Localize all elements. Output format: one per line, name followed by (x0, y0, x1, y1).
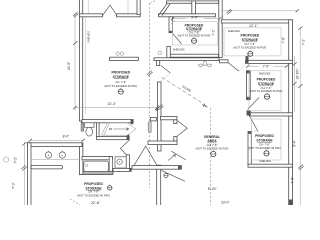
stairs inner slant (104, 123, 110, 135)
svg-text:SHELVES: SHELVES (87, 31, 91, 43)
dim line 7-0 room4 (248, 65, 260, 67)
svg-text:(NOT TO EXCEED 40 PSF): (NOT TO EXCEED 40 PSF) (234, 46, 267, 50)
kitchen counter edge (31, 159, 80, 161)
wall M2 top horizontal (117, 14, 141, 17)
room2 door leaf (173, 34, 182, 45)
dim line far-left vertical (23, 142, 25, 205)
svg-text:7'-9": 7'-9" (291, 176, 295, 183)
svg-text:CH: 7'-8": CH: 7'-8" (259, 142, 270, 146)
room3 door arc (239, 64, 246, 71)
divider left cap (247, 111, 251, 116)
chimney door leaf (171, 151, 186, 160)
svg-text:8'-1½": 8'-1½" (208, 187, 217, 191)
vanity sink (117, 159, 122, 164)
room2 interior thin rect (172, 22, 217, 45)
diagonal wall D1 (159, 3, 170, 15)
door wedge V2 (177, 121, 187, 137)
svg-text:STORAGE: STORAGE (256, 138, 273, 142)
lower wall below room2 (154, 58, 219, 61)
door V1 opening leaves (103, 5, 117, 15)
toilet bowl (86, 127, 93, 136)
svg-text:CH: 7'-8": CH: 7'-8" (88, 189, 99, 193)
chimney left stub (150, 118, 156, 121)
kitchen sink circle 1 (45, 152, 51, 158)
svg-text:13'-4": 13'-4" (107, 102, 116, 106)
wall corner stub W2 (137, 0, 140, 15)
room3 top wall (221, 20, 292, 23)
svg-text:(NOT TO EXCEED 40 PSF): (NOT TO EXCEED 40 PSF) (248, 146, 281, 150)
shelf line room1 (85, 17, 87, 114)
upper wall U (167, 1, 219, 3)
svg-text:(NOT TO EXCEED 40 PSF): (NOT TO EXCEED 40 PSF) (178, 34, 211, 38)
slope dashed diagonal (162, 77, 208, 106)
vanity (115, 157, 126, 168)
svg-text:16'-9": 16'-9" (67, 61, 71, 70)
room4 symbol (264, 93, 269, 99)
vanity side wall (126, 155, 129, 169)
slope arrow end (202, 104, 208, 108)
room3 door leaf (228, 63, 239, 72)
dim line top right thin (222, 10, 298, 12)
toilet tank (85, 123, 95, 128)
general area symbol (211, 150, 216, 156)
room4 left wall caps (247, 71, 250, 74)
bottom storage label (77, 182, 110, 197)
chimney gray block (148, 122, 151, 132)
room2 label PROPOSED STORAGE (178, 24, 211, 38)
kitchen counter bar (31, 166, 63, 169)
chimney top return (174, 120, 177, 124)
wall W1 end cap (81, 121, 84, 131)
chimney top wall (161, 116, 178, 119)
svg-text:SHELVES: SHELVES (259, 71, 271, 75)
room5 symbol (264, 150, 269, 156)
right exterior wall bottom cap (289, 200, 293, 206)
symbol circle near jog wall (158, 51, 162, 55)
stairs arrow (114, 128, 130, 131)
svg-text:7'-0": 7'-0" (11, 181, 15, 189)
svg-text:2R: 2R (109, 127, 113, 131)
smoke symbol hall (164, 173, 168, 177)
kitchen sink circle 2 (59, 152, 65, 158)
svg-text:7'-6": 7'-6" (281, 37, 285, 43)
svg-text:7'-2": 7'-2" (212, 29, 216, 35)
hall wall right cap (178, 166, 181, 169)
svg-text:(NOT TO EXCEED 40 PSF): (NOT TO EXCEED 40 PSF) (196, 146, 229, 150)
right exterior wall (289, 20, 293, 206)
dim line 8-0 kitchen (30, 139, 83, 141)
svg-text:STORAGE: STORAGE (186, 27, 203, 31)
wall step jamb right of W3 (220, 60, 229, 63)
room4 label PROPOSED STORAGE (250, 78, 283, 94)
tub-vanity wall (109, 157, 112, 172)
svg-text:(NOT TO EXCEED 40 PSF): (NOT TO EXCEED 40 PSF) (250, 89, 283, 93)
room2 stub swing tick (171, 21, 175, 25)
room3 interior thin rect (224, 28, 281, 56)
stairs pentagon (102, 123, 136, 135)
bathtub (84, 161, 109, 171)
dim line right outer (299, 27, 301, 205)
svg-text:12'-1": 12'-1" (249, 24, 258, 28)
jog jamb stub (157, 61, 160, 66)
bath top wall (82, 120, 133, 123)
dim line 9-0 room2 (172, 18, 186, 20)
svg-text:9'-4": 9'-4" (292, 139, 296, 146)
room2 bottom wall (170, 54, 219, 57)
room3 symbol (248, 50, 253, 56)
room3 bottom wall jamb (246, 56, 249, 64)
svg-text:CH: 7'-8": CH: 7'-8" (115, 80, 126, 84)
dashed line DL1 top diagonal (150, 0, 157, 4)
svg-text:SHELVES: SHELVES (173, 48, 185, 52)
break mark on DL1 (147, 71, 152, 77)
upper wall stub (192, 1, 196, 14)
closet jamb cap (127, 134, 130, 140)
jog stub up (167, 47, 171, 59)
room5 left wall (248, 132, 251, 165)
svg-text:STORAGE: STORAGE (242, 38, 259, 42)
closet bottom wall (97, 137, 130, 140)
tub drain (86, 164, 88, 166)
room5 door arc (250, 130, 258, 133)
wall M3 (159, 14, 216, 17)
shelf symbols (116, 52, 119, 55)
svg-text:16'-6½": 16'-6½" (295, 68, 299, 80)
dashed line DL1 vertical (149, 3, 151, 188)
room1 label PROPOSED STORAGE (104, 71, 137, 88)
closet left wall (97, 123, 100, 137)
svg-text:SHELVES: SHELVES (259, 159, 271, 163)
room5 door leaf (250, 116, 259, 132)
bath bottom wall right cap (129, 168, 131, 171)
wall left tall W1 (79, 0, 82, 121)
wall W3 room2/room3 divider (219, 0, 222, 58)
kitchen left wall (28, 143, 32, 206)
svg-text:22'-6": 22'-6" (91, 201, 101, 205)
room4 left wall (247, 71, 251, 100)
room5 interior thin rect (252, 119, 282, 160)
svg-text:STORAGE: STORAGE (258, 82, 275, 86)
kitchen top wall (28, 143, 83, 147)
dim line 13-4 horizontal (75, 107, 158, 109)
fan arrow symbol (168, 155, 176, 161)
wall H1 hall divider (158, 82, 162, 151)
room4-5 divider wall (250, 113, 293, 116)
left bath wall (79, 143, 83, 175)
bath bottom wall right (113, 168, 131, 171)
svg-text:8'-0": 8'-0" (63, 135, 71, 139)
hatched bath bottom wall left (80, 171, 113, 174)
room4 interior thin rect (249, 71, 281, 111)
svg-text:CH: 7'-8": CH: 7'-8" (207, 143, 218, 147)
dashed line DL2 general area (210, 108, 212, 205)
room2 stub cap (169, 31, 172, 33)
fan symbol near room2 (203, 62, 207, 66)
room1 symbol (118, 88, 123, 94)
left edge circle symbol (3, 157, 8, 162)
room2 symbol (192, 37, 197, 43)
svg-text:AREA: AREA (207, 139, 217, 143)
thin interior line above wall M x88 (87, 0, 89, 14)
chimney bottom wall (148, 141, 177, 145)
svg-text:7'-2": 7'-2" (13, 156, 17, 164)
room3 label PROPOSED STORAGE (234, 33, 267, 49)
svg-text:SHELVES: SHELVES (228, 29, 240, 33)
wall M1 top horizontal (79, 14, 102, 17)
svg-text:STORAGE: STORAGE (113, 75, 130, 79)
hall door arc (161, 73, 171, 81)
svg-text:7'-0": 7'-0" (263, 64, 271, 68)
bath door V (120, 140, 129, 155)
dashed diagonal bottom-left (70, 199, 80, 205)
hall door leaf (161, 65, 171, 73)
hall T wall vertical (157, 165, 161, 206)
double door lambda leaves (134, 146, 157, 165)
chimney bottom return (174, 136, 177, 141)
break mark on H1 (156, 105, 164, 112)
room2 door stub (169, 17, 172, 33)
hall door leaf lower (162, 171, 186, 182)
svg-text:9'-0": 9'-0" (191, 16, 199, 20)
room4 door leaf (248, 97, 260, 109)
svg-text:(NOT TO EXCEED 40 PSF): (NOT TO EXCEED 40 PSF) (104, 84, 137, 88)
hall wall horizontal (132, 166, 181, 170)
dim line right inner (293, 56, 295, 112)
general area label (196, 135, 229, 151)
svg-text:23'-0": 23'-0" (221, 200, 230, 204)
bath top wall end cap (131, 120, 134, 125)
svg-text:PROPOSED: PROPOSED (241, 33, 260, 37)
svg-text:(NOT TO EXCEED 40 PSF): (NOT TO EXCEED 40 PSF) (77, 194, 110, 198)
bottom storage symbol (108, 185, 112, 190)
svg-text:7'-2": 7'-2" (302, 38, 306, 45)
room5 label PROPOSED STORAGE (248, 134, 281, 150)
room5 bottom wall (248, 164, 293, 167)
wall above tub (82, 157, 112, 160)
room1 shelf bar (110, 57, 139, 60)
thin interior line above wall M x128 (127, 0, 129, 14)
room3 bottom wall (246, 60, 293, 63)
dim line left vertical 16-9 (74, 13, 76, 110)
room5 left wall top cap (248, 132, 251, 134)
